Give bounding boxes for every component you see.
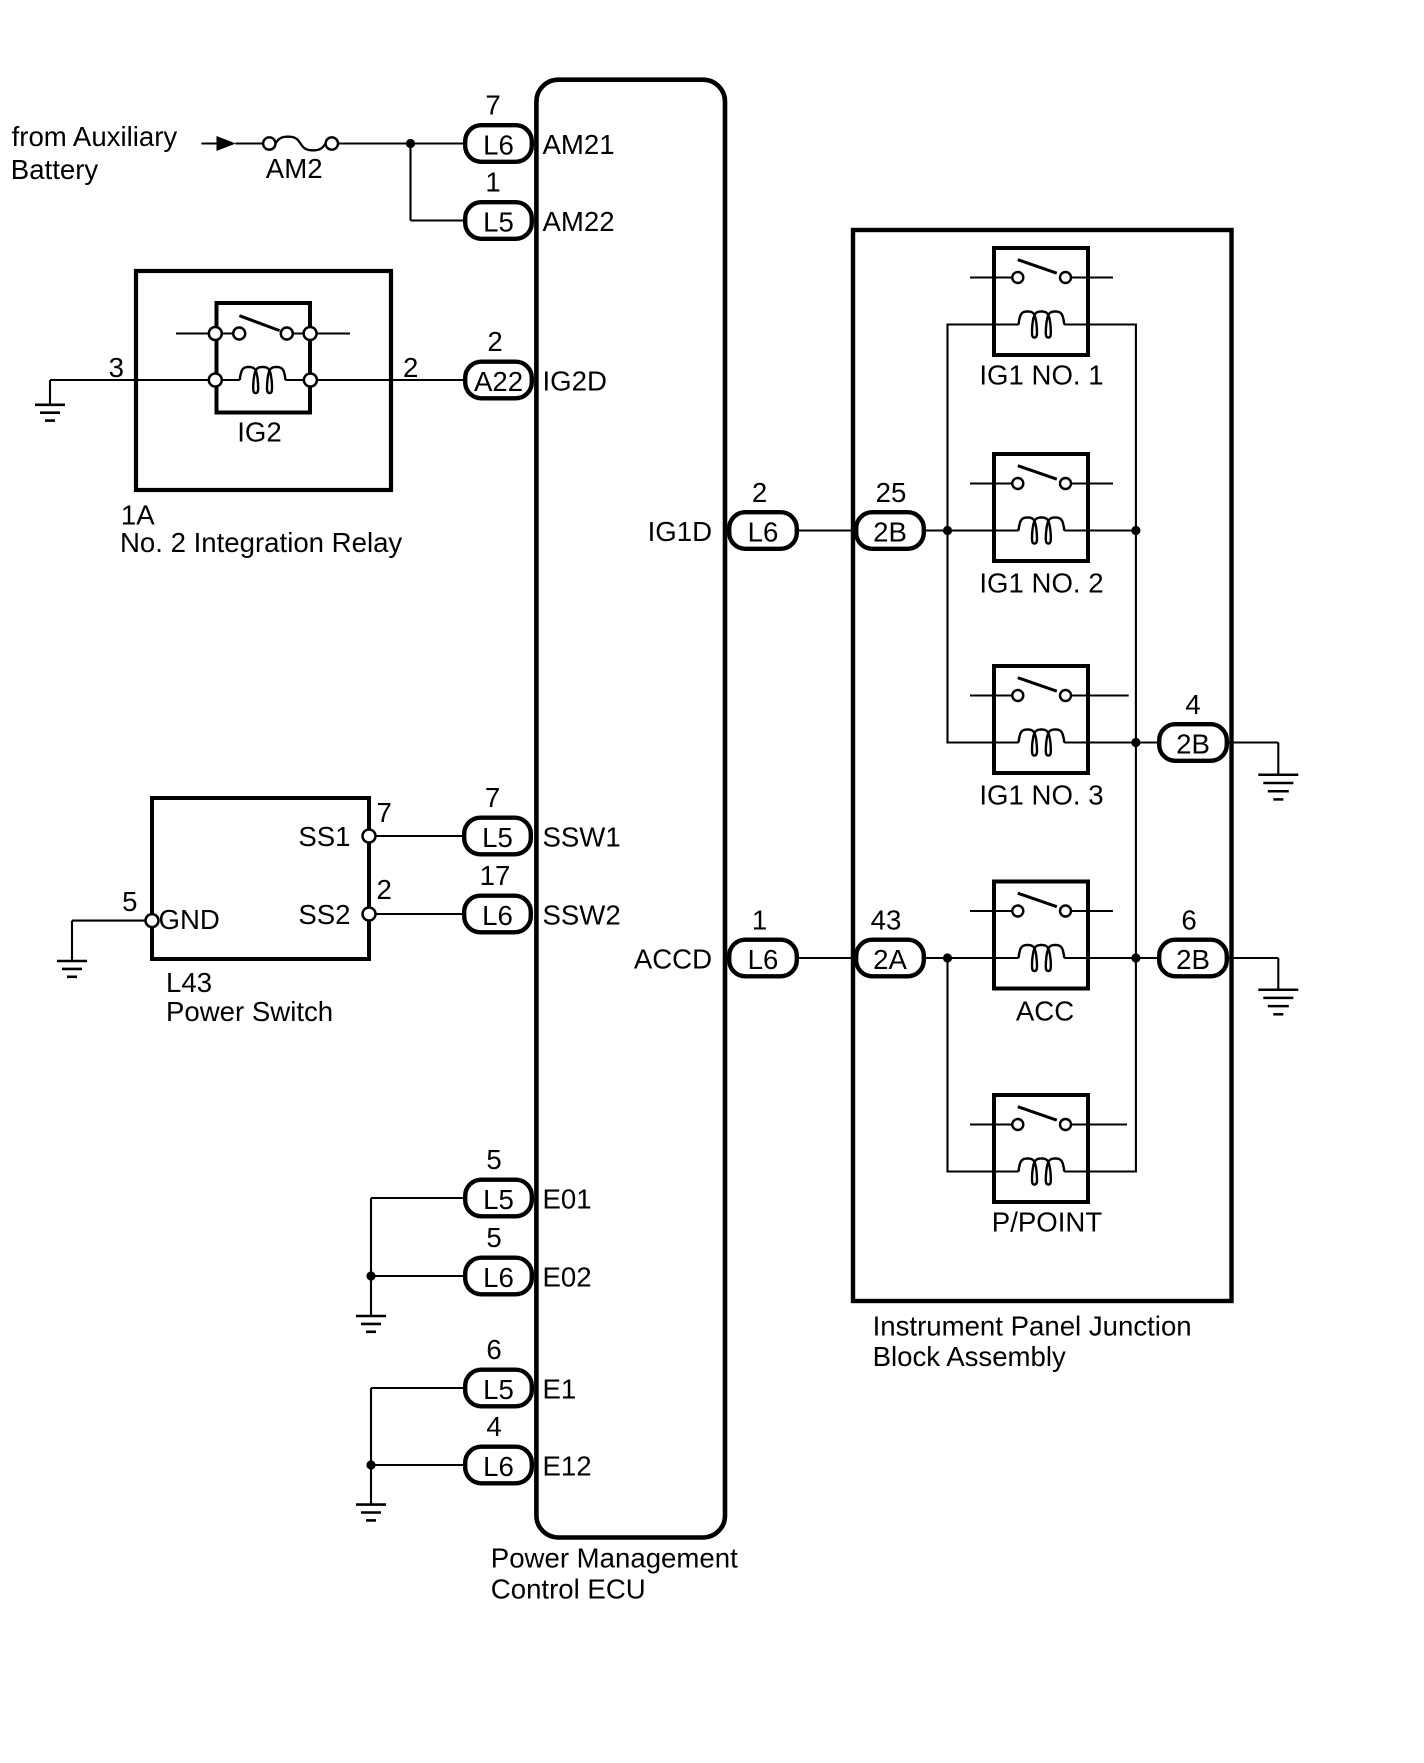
- node right bus at IG1 NO.3: [1131, 738, 1140, 747]
- svg-text:L5: L5: [483, 1374, 514, 1405]
- svg-text:2: 2: [403, 352, 418, 383]
- svg-text:E12: E12: [543, 1451, 592, 1482]
- svg-text:43: 43: [871, 905, 902, 936]
- IG1 NO. 3 switch wire right stub: [1066, 694, 1129, 696]
- wire E02 left: [371, 1275, 463, 1277]
- wire SS2 to L6: [369, 913, 462, 915]
- svg-text:IG1 NO. 2: IG1 NO. 2: [979, 568, 1103, 599]
- arrow battery feed: [217, 136, 236, 151]
- IG2 border terminal right bottom: [304, 374, 317, 387]
- svg-text:2: 2: [752, 477, 767, 508]
- svg-text:4: 4: [486, 1411, 501, 1442]
- connector L5 AM22: [465, 202, 532, 239]
- IG1 NO. 3 switch wire left stub: [970, 694, 1018, 696]
- svg-text:6: 6: [486, 1334, 501, 1365]
- connector 2B 6: [1159, 940, 1227, 977]
- ground at E12: [356, 1503, 386, 1506]
- svg-text:Power Switch: Power Switch: [166, 996, 333, 1027]
- ACC relay coil: [1019, 945, 1065, 971]
- P/POINT switch contact left: [1012, 1119, 1023, 1130]
- wire E01 left: [371, 1197, 463, 1199]
- svg-text:L5: L5: [483, 207, 514, 238]
- svg-text:IG2: IG2: [237, 417, 281, 448]
- ACC relay box: [994, 882, 1088, 989]
- P/POINT relay box: [994, 1095, 1088, 1202]
- svg-text:17: 17: [480, 860, 511, 891]
- connector L6 AM21: [465, 125, 532, 162]
- IG1 NO. 2 switch blade: [1018, 466, 1057, 480]
- svg-text:GND: GND: [159, 904, 220, 935]
- svg-text:2B: 2B: [1176, 729, 1210, 760]
- svg-text:IG2D: IG2D: [543, 366, 607, 397]
- svg-text:L6: L6: [748, 944, 779, 975]
- wire right bus: [1064, 325, 1136, 1172]
- wire ACC left bus: [948, 958, 1019, 1172]
- connector 2B 4: [1159, 724, 1227, 761]
- ground stem E12: [370, 1465, 372, 1505]
- IG2 border terminal right top: [304, 327, 317, 340]
- IG2 border terminal left top: [209, 327, 222, 340]
- connector 2B 25: [856, 512, 924, 549]
- node IG1 left bus at 2B: [943, 526, 952, 535]
- svg-text:P/POINT: P/POINT: [992, 1207, 1103, 1238]
- svg-text:L6: L6: [483, 1451, 514, 1482]
- wire E12 left: [371, 1464, 463, 1466]
- svg-text:25: 25: [876, 477, 907, 508]
- ACC switch wire left stub: [970, 910, 1018, 912]
- connector L6 E12: [465, 1447, 532, 1484]
- svg-text:AM21: AM21: [543, 129, 615, 160]
- wire ACC coil to 2B: [1064, 957, 1157, 959]
- P/POINT switch contact right: [1060, 1119, 1071, 1130]
- svg-text:L6: L6: [748, 517, 779, 548]
- svg-text:from Auxiliary: from Auxiliary: [12, 121, 178, 152]
- wire GND to ground: [72, 920, 152, 922]
- connector L5 SSW1: [464, 818, 531, 855]
- wire 2B 6 to ground: [1229, 957, 1278, 959]
- ACC switch wire right stub: [1066, 910, 1114, 912]
- IG2 border terminal left bottom: [209, 374, 222, 387]
- fuse AM2: [276, 137, 326, 151]
- svg-text:2A: 2A: [873, 944, 907, 975]
- connector L6 ACCD: [729, 940, 797, 977]
- svg-text:IG1D: IG1D: [648, 516, 712, 547]
- wire 2A to ACC coil: [926, 957, 1019, 959]
- wire E1 left: [371, 1387, 463, 1389]
- IG1 NO. 3 switch blade: [1018, 678, 1057, 692]
- connector L6 SSW2: [464, 896, 531, 933]
- terminal SS1: [363, 830, 376, 843]
- IG1 NO. 3 switch contact left: [1012, 690, 1023, 701]
- terminal GND: [146, 914, 159, 927]
- IG2 switch contact right: [281, 328, 293, 340]
- ground at power switch: [57, 960, 87, 963]
- svg-text:L6: L6: [483, 1262, 514, 1293]
- IG1 NO. 2 relay box: [994, 454, 1088, 561]
- node E02 junction: [366, 1271, 375, 1280]
- node ACC left bus at 2A: [943, 953, 952, 962]
- svg-text:1: 1: [752, 905, 767, 936]
- IG1 NO. 3 relay coil: [1019, 730, 1065, 756]
- IG1 NO. 1 relay box: [994, 248, 1088, 355]
- svg-text:E1: E1: [543, 1374, 577, 1405]
- svg-text:7: 7: [485, 90, 500, 121]
- connector A22 IG2D: [465, 362, 532, 399]
- IG1 NO. 2 switch wire right stub: [1066, 482, 1114, 484]
- svg-text:5: 5: [486, 1222, 501, 1253]
- IG2 switch blade: [239, 316, 279, 331]
- Power Management Control ECU box: [536, 80, 725, 1538]
- IG1 NO. 1 switch wire left stub: [970, 276, 1018, 278]
- svg-text:L6: L6: [482, 900, 513, 931]
- svg-text:ACCD: ACCD: [634, 944, 712, 975]
- ground at 2B 6: [1258, 988, 1298, 991]
- Instrument Panel Junction Block box: [853, 230, 1232, 1301]
- svg-text:7: 7: [377, 797, 392, 828]
- svg-text:No. 2 Integration Relay: No. 2 Integration Relay: [120, 527, 402, 558]
- IG1 NO. 3 relay box: [994, 666, 1088, 773]
- wire E1-E12 vertical: [370, 1388, 372, 1465]
- svg-text:5: 5: [122, 886, 137, 917]
- svg-text:2: 2: [377, 874, 392, 905]
- node right bus at IG1 NO.2: [1131, 526, 1140, 535]
- ACC switch blade: [1018, 893, 1057, 907]
- ground stem E02: [370, 1276, 372, 1316]
- IG1 NO. 1 relay coil: [1019, 312, 1065, 338]
- wire IG2 coil to A22: [285, 379, 463, 381]
- svg-text:Control ECU: Control ECU: [491, 1574, 646, 1605]
- svg-text:3: 3: [109, 352, 124, 383]
- svg-text:Power Management: Power Management: [491, 1543, 738, 1574]
- svg-text:2: 2: [487, 326, 502, 357]
- node battery junction: [406, 139, 415, 148]
- svg-text:A22: A22: [474, 366, 523, 397]
- svg-text:2B: 2B: [1176, 944, 1210, 975]
- svg-text:AM2: AM2: [266, 153, 323, 184]
- IG1 NO. 1 switch contact right: [1060, 272, 1071, 283]
- svg-text:1A: 1A: [121, 499, 155, 530]
- svg-text:Block Assembly: Block Assembly: [873, 1341, 1066, 1372]
- node right bus at ACC: [1131, 953, 1140, 962]
- svg-text:L6: L6: [483, 130, 514, 161]
- svg-text:4: 4: [1185, 689, 1200, 720]
- P/POINT relay coil: [1019, 1159, 1065, 1185]
- wire 2B to IG1 NO.2 coil: [926, 529, 1019, 531]
- svg-text:2B: 2B: [873, 517, 907, 548]
- ground at E02: [356, 1315, 386, 1318]
- IG2 coil: [240, 367, 286, 393]
- wire ground to IG2 coil: [50, 379, 240, 381]
- IG2 switch wire: [176, 332, 239, 334]
- P/POINT switch blade: [1018, 1107, 1057, 1121]
- connector L5 E1: [465, 1370, 532, 1407]
- wire IG1D to 2B: [799, 529, 854, 531]
- ACC switch contact right: [1060, 906, 1071, 917]
- wire fuse to AM21: [338, 142, 463, 144]
- svg-text:ACC: ACC: [1016, 996, 1074, 1027]
- connector L5 E01: [465, 1180, 532, 1217]
- wire IG1 left bus: [948, 325, 1019, 743]
- IG1 NO. 2 switch contact right: [1060, 478, 1071, 489]
- svg-text:SS2: SS2: [298, 899, 350, 930]
- wire ACCD to 2A: [799, 957, 854, 959]
- wire 2B 4 to ground: [1229, 741, 1278, 743]
- No. 2 Integration Relay box: [136, 271, 391, 490]
- IG1 NO. 2 relay coil: [1019, 518, 1065, 544]
- svg-text:L5: L5: [483, 1184, 514, 1215]
- ACC switch contact left: [1012, 906, 1023, 917]
- svg-text:Instrument Panel Junction: Instrument Panel Junction: [873, 1310, 1192, 1341]
- IG1 NO. 1 switch wire right stub: [1066, 276, 1114, 278]
- svg-text:SSW2: SSW2: [543, 900, 621, 931]
- terminal SS2: [363, 908, 376, 921]
- svg-text:SS1: SS1: [298, 821, 350, 852]
- svg-text:L5: L5: [482, 822, 513, 853]
- wire IG1 NO.2 coil to bus: [1064, 529, 1136, 531]
- connector 2A 43: [856, 940, 924, 977]
- IG1 NO. 3 switch contact right: [1060, 690, 1071, 701]
- svg-text:IG1 NO. 3: IG1 NO. 3: [979, 780, 1103, 811]
- svg-text:Battery: Battery: [11, 154, 99, 185]
- svg-text:1: 1: [485, 167, 500, 198]
- svg-text:5: 5: [486, 1144, 501, 1175]
- IG1 NO. 1 switch blade: [1018, 260, 1057, 274]
- ground stem at IG2: [49, 380, 51, 405]
- wire arrow to fuse: [236, 142, 263, 144]
- svg-text:SSW1: SSW1: [543, 822, 621, 853]
- Power Switch box: [152, 798, 369, 959]
- connector L6 E02: [465, 1258, 532, 1295]
- wire junction down to AM22: [409, 144, 411, 221]
- svg-text:7: 7: [485, 782, 500, 813]
- svg-text:L43: L43: [166, 967, 212, 998]
- node E12 junction: [366, 1460, 375, 1469]
- IG2 switch contact left: [233, 328, 245, 340]
- IG1 NO. 1 switch contact left: [1012, 272, 1023, 283]
- IG1 NO. 2 switch wire left stub: [970, 482, 1018, 484]
- svg-text:E01: E01: [543, 1184, 592, 1215]
- connector L6 IG1D: [729, 512, 797, 549]
- svg-text:AM22: AM22: [543, 206, 615, 237]
- wire E01-E02 vertical: [370, 1198, 372, 1276]
- ground at IG2: [35, 403, 65, 406]
- svg-text:E02: E02: [543, 1262, 592, 1293]
- IG1 NO. 2 switch contact left: [1012, 478, 1023, 489]
- wire SS1 to L5: [369, 835, 462, 837]
- P/POINT switch wire left stub: [970, 1123, 1018, 1125]
- wire battery feed: [201, 142, 217, 144]
- svg-text:6: 6: [1181, 905, 1196, 936]
- wire IG1 NO.3 coil to 2B: [1064, 741, 1157, 743]
- svg-text:IG1 NO. 1: IG1 NO. 1: [979, 360, 1103, 391]
- P/POINT switch wire right stub: [1066, 1123, 1128, 1125]
- relay IG2 box: [217, 303, 311, 413]
- ground at 2B 4: [1258, 774, 1298, 777]
